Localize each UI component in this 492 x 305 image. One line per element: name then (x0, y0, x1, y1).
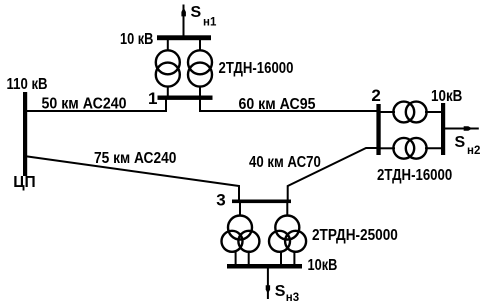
svg-text:3: 3 (216, 191, 225, 210)
svg-text:60 км АС95: 60 км АС95 (239, 95, 316, 113)
svg-text:S: S (275, 283, 286, 300)
svg-text:н2: н2 (467, 145, 480, 157)
svg-text:75 км АС240: 75 км АС240 (94, 149, 176, 167)
svg-text:10 кВ: 10 кВ (120, 31, 153, 49)
svg-text:ЦП: ЦП (13, 174, 35, 191)
svg-text:н1: н1 (203, 16, 217, 28)
svg-text:н3: н3 (286, 292, 299, 304)
svg-text:110 кВ: 110 кВ (7, 76, 48, 93)
svg-text:10кВ: 10кВ (308, 257, 338, 275)
svg-text:2: 2 (371, 86, 380, 105)
svg-text:S: S (455, 134, 466, 151)
svg-text:S: S (191, 4, 202, 21)
svg-text:50 км АС240: 50 км АС240 (42, 95, 127, 113)
svg-text:10кВ: 10кВ (431, 88, 462, 105)
svg-text:2ТДН-16000: 2ТДН-16000 (219, 60, 294, 77)
svg-text:2ТРДН-25000: 2ТРДН-25000 (312, 227, 398, 244)
svg-text:2ТДН-16000: 2ТДН-16000 (377, 167, 452, 184)
svg-text:1: 1 (148, 89, 157, 108)
svg-text:40 км АС70: 40 км АС70 (249, 154, 321, 171)
